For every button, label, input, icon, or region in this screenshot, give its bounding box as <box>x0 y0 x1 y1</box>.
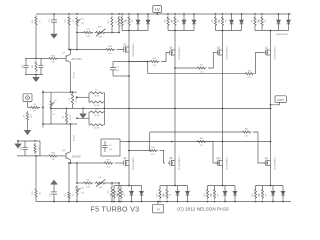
svg-text:Q3: Q3 <box>123 44 127 46</box>
svg-text:Q1: Q1 <box>69 98 71 100</box>
svg-text:5K: 5K <box>82 193 85 195</box>
svg-text:Q4: Q4 <box>169 47 173 49</box>
mosfet Q1 FQA19N20 <box>264 52 266 54</box>
mosfet Q4 FQA19N20 <box>168 52 170 54</box>
svg-text:47.5: 47.5 <box>153 65 157 67</box>
svg-text:R2: R2 <box>24 115 26 117</box>
wire emitter <box>70 62 72 92</box>
svg-text:R06: R06 <box>51 55 56 57</box>
wire cluster top <box>43 91 77 93</box>
diode MUR3020 <box>224 201 226 203</box>
diode MUR3020 <box>147 13 149 15</box>
svg-text:MUR3020W: MUR3020W <box>276 34 287 36</box>
wire Q4 column <box>174 31 176 186</box>
svg-text:R14: R14 <box>153 58 156 60</box>
svg-text:R11: R11 <box>86 29 89 31</box>
svg-text:C06: C06 <box>21 147 23 150</box>
wire <box>106 182 119 184</box>
svg-text:2SC4793: 2SC4793 <box>72 59 82 61</box>
diode MUR3020 <box>278 13 280 15</box>
svg-text:470: 470 <box>51 62 55 64</box>
wire lower line <box>120 141 271 143</box>
diode MUR3020 <box>272 201 274 203</box>
svg-text:4.7K: 4.7K <box>98 177 103 179</box>
svg-text:0R5: 0R5 <box>164 19 166 22</box>
svg-text:R15: R15 <box>200 65 203 67</box>
svg-text:R12: R12 <box>86 180 89 182</box>
svg-text:+V: +V <box>155 7 160 12</box>
diode MUR3020 <box>288 13 290 15</box>
svg-text:0R5: 0R5 <box>219 19 221 22</box>
svg-text:Q5: Q5 <box>217 47 221 49</box>
resistor 0R5 3W <box>120 201 122 203</box>
wire source bus <box>208 185 236 187</box>
wire emitter <box>70 124 72 152</box>
resistor R17 <box>111 13 113 15</box>
svg-text:R1: R1 <box>33 104 36 106</box>
wire source bus <box>168 30 194 32</box>
svg-text:C08: C08 <box>50 193 52 196</box>
svg-text:P2: P2 <box>54 100 57 102</box>
resistor R16 <box>148 149 158 151</box>
svg-text:FQA12P20: FQA12P20 <box>131 157 134 171</box>
svg-text:0R5: 0R5 <box>258 19 260 22</box>
wire collector <box>70 160 72 163</box>
svg-text:1K: 1K <box>33 110 36 112</box>
svg-text:R7: R7 <box>95 90 97 92</box>
svg-text:47.5: 47.5 <box>200 71 204 73</box>
svg-text:FQA19N20: FQA19N20 <box>131 44 134 58</box>
wire <box>113 75 129 77</box>
resistor 0R5 3W <box>174 13 176 15</box>
svg-text:C4: C4 <box>109 145 111 147</box>
ground <box>53 28 55 34</box>
svg-text:R40: R40 <box>248 70 251 72</box>
trimpot P3 <box>76 185 78 196</box>
svg-text:R05: R05 <box>32 65 34 68</box>
svg-text:(C) 2012 NELSON PASS: (C) 2012 NELSON PASS <box>177 206 229 211</box>
resistor R17b <box>111 186 113 198</box>
resistor R18 <box>118 13 120 15</box>
wire <box>76 33 78 50</box>
svg-text:47.5: 47.5 <box>200 145 204 147</box>
resistor 0R5 3W <box>214 201 216 203</box>
resistor R04 <box>34 143 36 154</box>
svg-text:5K: 5K <box>53 114 56 116</box>
wire gate line upper <box>69 49 105 51</box>
trimpot P1 <box>76 13 78 15</box>
wire <box>208 53 216 69</box>
capacitor C6a <box>40 59 42 66</box>
svg-text:R20: R20 <box>32 20 34 23</box>
wire source bus <box>216 30 242 32</box>
supply -V terminal <box>153 204 164 213</box>
svg-text:FQA12P20: FQA12P20 <box>273 157 276 171</box>
svg-text:R9: R9 <box>95 109 97 111</box>
resistor 0R5 3W <box>255 201 257 203</box>
svg-text:R03: R03 <box>32 191 34 194</box>
svg-text:47.5: 47.5 <box>248 77 252 79</box>
resistor R05 <box>35 61 37 73</box>
svg-text:R09: R09 <box>65 19 67 22</box>
wire <box>42 107 44 109</box>
wire <box>147 62 149 74</box>
mosfet Q2 FQA12P20 <box>264 162 266 164</box>
svg-text:2SA1837: 2SA1837 <box>72 156 82 159</box>
diode MUR3020 <box>241 13 243 15</box>
input jack J1 <box>23 94 32 102</box>
wire <box>35 27 37 59</box>
resistor R09 <box>68 13 70 15</box>
svg-text:220: 220 <box>114 21 116 24</box>
wire <box>68 27 70 50</box>
svg-text:2.2K: 2.2K <box>86 186 91 188</box>
svg-text:R10: R10 <box>65 193 67 196</box>
wire <box>77 117 89 119</box>
capacitor C3 <box>112 62 114 68</box>
resistor R06 <box>43 58 48 60</box>
resistor R03 <box>35 188 37 199</box>
wire gate vertical <box>42 91 44 128</box>
svg-text:R41: R41 <box>200 138 203 140</box>
svg-text:220 3W: 220 3W <box>94 95 100 97</box>
svg-text:220 3W: 220 3W <box>94 105 100 107</box>
resistor 0R5 3W <box>159 201 161 203</box>
resistor 0R5 3W <box>167 13 169 15</box>
wire <box>113 61 148 63</box>
wire <box>160 151 166 164</box>
resistor R2 <box>26 111 28 121</box>
svg-text:220 1W: 220 1W <box>72 72 74 78</box>
resistor 0R5 3W <box>262 201 264 203</box>
svg-text:Q2: Q2 <box>63 116 65 118</box>
wire bias chain <box>77 32 83 34</box>
svg-text:FQA19N20: FQA19N20 <box>225 47 228 61</box>
zobel network <box>101 139 120 156</box>
capacitor C8 <box>53 185 55 192</box>
svg-text:2SJ74: 2SJ74 <box>68 114 70 119</box>
transistor Q8 2SA1837 <box>65 153 67 159</box>
mosfet Q3 FQA19N20 <box>122 49 124 51</box>
svg-text:3W: 3W <box>177 20 179 23</box>
svg-text:220 1W: 220 1W <box>72 135 74 141</box>
wire <box>104 93 106 112</box>
node A wires <box>25 58 43 60</box>
wire <box>106 32 119 34</box>
resistor 0R5 3W <box>261 13 263 15</box>
svg-text:1uF: 1uF <box>109 149 113 151</box>
svg-text:Q8: Q8 <box>169 158 173 160</box>
wire cluster bottom <box>43 123 77 125</box>
wire <box>129 150 148 152</box>
wire mid line right <box>129 107 271 109</box>
svg-text:C3: C3 <box>116 67 119 69</box>
supply +V terminal <box>153 6 162 13</box>
svg-text:221: 221 <box>71 20 73 23</box>
diode MUR3020 <box>282 201 284 203</box>
svg-text:FQA19N20: FQA19N20 <box>177 47 180 61</box>
wire source bus <box>160 185 188 187</box>
svg-text:0R5: 0R5 <box>125 19 127 22</box>
wire <box>175 67 196 69</box>
wire Q5 column <box>222 31 224 186</box>
wire <box>104 112 106 125</box>
diode MUR3020 <box>193 13 195 15</box>
svg-text:0R5: 0R5 <box>259 193 261 196</box>
svg-text:0R5: 0R5 <box>156 193 158 196</box>
svg-text:Q7: Q7 <box>62 53 66 55</box>
diode MUR3020 <box>137 13 139 15</box>
resistor R08 <box>40 155 48 157</box>
resistor 0R5 3W <box>254 13 256 15</box>
svg-text:0R5: 0R5 <box>118 19 120 22</box>
diode MUR3020 <box>141 201 143 203</box>
wire mid line <box>51 107 129 109</box>
svg-text:2.2K: 2.2K <box>86 36 91 38</box>
svg-text:47.5: 47.5 <box>107 166 111 168</box>
resistor R20 <box>35 16 37 27</box>
svg-text:0R5: 0R5 <box>204 193 206 196</box>
svg-text:R42: R42 <box>245 129 248 131</box>
resistor R9 <box>88 112 90 118</box>
node B wires <box>17 140 40 142</box>
wire Q3 column <box>128 31 130 186</box>
svg-text:P1: P1 <box>82 19 85 21</box>
svg-text:3W: 3W <box>264 20 266 23</box>
diode MUR3020 <box>187 201 189 203</box>
wire bias chain lower <box>77 182 83 184</box>
resistor R7 <box>88 93 90 98</box>
svg-text:1K: 1K <box>38 20 40 23</box>
resistor 0R5 3W <box>113 201 115 203</box>
svg-text:10K: 10K <box>29 114 31 118</box>
ground <box>35 75 37 78</box>
svg-text:47.5: 47.5 <box>151 154 155 156</box>
svg-text:3W: 3W <box>216 194 218 197</box>
svg-text:3W: 3W <box>169 194 171 197</box>
ground <box>82 108 84 114</box>
resistor R18b <box>118 186 120 198</box>
svg-text:Q8: Q8 <box>62 150 66 152</box>
wire <box>150 131 241 133</box>
mosfet Q10 FQA12P20 <box>216 162 218 164</box>
wire <box>117 49 123 51</box>
svg-text:4.7K: 4.7K <box>98 27 103 29</box>
capacitor C5 <box>25 59 27 66</box>
svg-text:10P: 10P <box>116 70 120 72</box>
svg-text:3W: 3W <box>123 194 125 197</box>
wire <box>27 102 29 108</box>
svg-text:P2: P2 <box>82 188 85 190</box>
svg-text:47.5: 47.5 <box>108 53 112 55</box>
diode MUR3020 <box>177 201 179 203</box>
svg-text:470: 470 <box>51 159 55 161</box>
svg-text:220 3W: 220 3W <box>94 115 100 117</box>
wire <box>76 28 78 33</box>
svg-text:R16: R16 <box>151 147 154 149</box>
resistor 0R5 3W <box>121 13 123 15</box>
svg-text:0R5: 0R5 <box>252 193 254 196</box>
jfet Q1 2SK170 <box>71 92 73 106</box>
resistor R1 <box>28 107 30 109</box>
capacitor C7 <box>53 13 55 15</box>
resistor 0R5 3W <box>222 13 224 15</box>
svg-text:3W: 3W <box>131 20 133 23</box>
svg-text:FQA19N20: FQA19N20 <box>273 47 276 61</box>
wire collector <box>70 50 72 55</box>
resistor R10b <box>68 163 70 191</box>
svg-text:Q6: Q6 <box>123 158 127 160</box>
svg-text:C05: C05 <box>22 65 24 68</box>
wire <box>115 162 122 164</box>
svg-text:0R5: 0R5 <box>171 19 173 22</box>
resistor 0R5 3W <box>128 13 130 15</box>
diode MUR3020 <box>183 13 185 15</box>
wire <box>77 96 89 98</box>
svg-text:3W: 3W <box>224 20 226 23</box>
svg-text:220: 220 <box>114 191 116 194</box>
resistor R13 <box>105 48 115 50</box>
svg-text:3W: 3W <box>264 194 266 197</box>
svg-text:R19: R19 <box>107 160 110 162</box>
resistor R10 <box>88 118 90 125</box>
resistor 0R5 3W <box>166 201 168 203</box>
node OUT <box>275 96 286 103</box>
svg-text:1K: 1K <box>38 192 40 195</box>
svg-text:C07: C07 <box>49 19 51 22</box>
resistor R8 <box>88 97 90 102</box>
transistor Q7 2SC4793 <box>65 55 67 61</box>
svg-text:R13: R13 <box>108 46 111 48</box>
diode MUR3020 <box>131 201 133 203</box>
svg-text:F5 TURBO V3: F5 TURBO V3 <box>91 206 140 214</box>
wire <box>148 73 244 75</box>
wire source bus <box>114 185 142 187</box>
wire <box>208 142 218 164</box>
resistor R14 <box>149 60 159 62</box>
svg-text:1W: 1W <box>121 191 123 194</box>
resistor 0R5 3W <box>215 13 217 15</box>
resistor R40 <box>244 73 254 75</box>
svg-text:Q1: Q1 <box>265 47 269 49</box>
wire <box>76 163 78 183</box>
trimpot P2 <box>50 92 52 99</box>
resistor 0R5 3W <box>207 201 209 203</box>
svg-text:FQA12P20: FQA12P20 <box>225 157 228 171</box>
svg-text:Q10: Q10 <box>216 158 221 160</box>
wire <box>149 132 151 151</box>
wire -V rail <box>36 201 291 203</box>
svg-text:FQA12P20: FQA12P20 <box>177 157 180 171</box>
svg-text:-V: -V <box>156 207 160 211</box>
resistor R42 <box>241 131 251 133</box>
resistor R41 <box>196 140 206 142</box>
diode MUR3020 <box>231 13 233 15</box>
svg-text:220 3W: 220 3W <box>94 127 100 129</box>
resistor R15 <box>196 67 206 69</box>
ground <box>53 184 55 186</box>
svg-text:R08: R08 <box>51 153 56 155</box>
resistor R11 <box>83 31 93 33</box>
svg-text:0R5: 0R5 <box>251 19 253 22</box>
svg-text:R17: R17 <box>108 20 110 23</box>
wire <box>256 53 264 74</box>
wire <box>129 61 149 63</box>
svg-text:R17: R17 <box>108 190 110 193</box>
mosfet Q8 FQA12P20 <box>168 162 170 164</box>
jfet Q2 2SJ74 <box>66 108 68 111</box>
wire source bus <box>256 185 284 187</box>
svg-text:0R5: 0R5 <box>211 193 213 196</box>
svg-text:OUT: OUT <box>277 98 284 102</box>
thermistor TH2 <box>95 182 107 184</box>
wire <box>253 132 265 163</box>
svg-text:221: 221 <box>71 194 73 197</box>
capacitor C6 <box>24 141 26 147</box>
svg-text:TH1: TH1 <box>99 36 103 38</box>
wire +V rail <box>36 13 291 15</box>
wire source bus <box>255 30 289 32</box>
mosfet Q5 FQA19N20 <box>216 52 218 54</box>
svg-text:0R5: 0R5 <box>163 193 165 196</box>
wire source bus <box>122 30 148 32</box>
wire <box>35 156 37 188</box>
resistor R19 <box>103 162 113 164</box>
svg-text:0R5: 0R5 <box>212 19 214 22</box>
diode MUR3020 <box>234 201 236 203</box>
svg-text:1K: 1K <box>37 147 39 150</box>
svg-text:TH2: TH2 <box>99 187 103 189</box>
thermistor TH1 <box>95 31 107 33</box>
ground <box>27 122 29 131</box>
svg-text:47.5: 47.5 <box>245 135 249 137</box>
resistor R12 <box>83 182 93 184</box>
ground <box>17 141 19 144</box>
svg-text:2SK170: 2SK170 <box>74 96 76 102</box>
wire gate line lower <box>69 162 103 164</box>
svg-text:5K: 5K <box>82 23 85 25</box>
mosfet Q6 FQA12P20 <box>122 162 124 164</box>
wire Q1 column <box>270 31 272 186</box>
svg-text:Q2: Q2 <box>265 158 269 160</box>
wire <box>161 53 168 62</box>
